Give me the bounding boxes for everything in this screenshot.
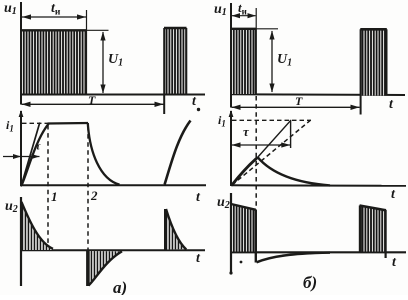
label tи — [51, 1, 61, 18]
svg-text:t: t — [391, 187, 396, 202]
label t (middle-right axis) — [391, 187, 396, 202]
pulse 1 top edge — [21, 29, 87, 31]
pulse 2 right edge — [386, 29, 388, 95]
dimension arrow tau — [232, 142, 291, 147]
label 2 — [90, 188, 98, 203]
pulse 2 top edge — [360, 28, 387, 31]
arrowhead i1 axis — [229, 110, 234, 117]
block 1 hatched — [232, 205, 256, 252]
arrowhead i1 axis — [19, 110, 24, 117]
label t (bottom-left axis) — [196, 251, 201, 266]
speck dot — [240, 261, 243, 264]
label u1 — [4, 1, 17, 17]
axis u1 (left, vertical) — [20, 2, 22, 105]
dimension arrow tи — [232, 13, 257, 18]
block 1 top edge (drooping) — [231, 204, 256, 210]
label b) — [303, 273, 317, 292]
speck — [197, 108, 200, 111]
svg-text:τ: τ — [36, 141, 42, 153]
extension line above pulse1 right edge — [255, 8, 257, 29]
label t (bottom-right axis) — [392, 255, 397, 270]
svg-text:u2: u2 — [217, 195, 230, 211]
tick at tau point — [290, 120, 292, 148]
axis u2 (vertical, extends below baseline) — [230, 193, 232, 272]
axis i1 (vertical) — [20, 111, 22, 186]
spike 1 rising edge — [20, 202, 22, 251]
label U1 — [277, 52, 292, 69]
spike 1 hatched area — [22, 202, 53, 250]
dashed vertical at pulse end x=256 — [255, 96, 257, 208]
svg-text:U1: U1 — [277, 52, 292, 69]
axis u2 (vertical, extends below baseline) — [20, 197, 22, 286]
pulse 1 hatched — [232, 29, 256, 94]
block 2 hatched — [361, 206, 386, 252]
current flat top — [48, 122, 89, 125]
label U1 — [108, 52, 123, 69]
axis u1 (vertical) — [230, 3, 232, 108]
pulse 1 hatched (t=0..tи) — [22, 31, 86, 94]
svg-text:а): а) — [113, 278, 127, 295]
pulse 2 right edge — [185, 28, 187, 94]
svg-text:T: T — [88, 93, 96, 107]
label t (top-left axis) — [192, 94, 197, 109]
pulse 1 right edge — [85, 30, 87, 94]
spike 2 falling edge — [86, 251, 90, 287]
block 2 top edge — [360, 206, 387, 211]
label i1 — [6, 118, 14, 134]
block 2 right edge (small tail below baseline) — [385, 210, 387, 258]
svg-text:t: t — [392, 255, 397, 270]
dashed asymptote level — [22, 122, 48, 124]
label T — [295, 94, 303, 108]
axis t (bottom-right baseline) — [231, 251, 406, 253]
block 2 left edge — [359, 206, 362, 253]
label tau — [243, 124, 250, 139]
pulse 1 top edge — [231, 28, 257, 30]
axis i1 (vertical) — [230, 111, 232, 186]
pulse 2 left edge (extends below axis) — [360, 29, 362, 114]
spike 3 decay curve — [166, 209, 186, 250]
thin line from peak to asymptote — [258, 120, 291, 157]
undershoot recovery curve — [257, 253, 331, 263]
svg-text:2: 2 — [90, 188, 98, 203]
current rise (sawtooth front) — [232, 157, 258, 185]
label a) — [113, 278, 127, 297]
label u2 — [217, 195, 230, 211]
tangent line at origin — [21, 123, 40, 187]
label t (top-right axis) — [389, 97, 394, 112]
axis t (top-right baseline) — [230, 93, 405, 96]
block 1 right edge (drops below baseline) — [255, 210, 257, 263]
svg-text:tи: tи — [238, 0, 247, 17]
axis t (middle-left baseline) — [21, 184, 206, 186]
svg-text:u2: u2 — [5, 199, 18, 215]
current rise curve (next period) — [165, 121, 191, 185]
label tи — [238, 0, 247, 17]
label u2 — [5, 199, 18, 215]
extension line right of pulse top for U1 — [257, 28, 279, 30]
current decay curve — [88, 123, 120, 185]
pulse 2 left edge (extends below axis to T arrow) — [163, 28, 165, 114]
dashed asymptote level — [232, 119, 311, 121]
pulse 1 right edge — [255, 29, 257, 95]
label u1 — [214, 2, 227, 18]
label tau — [36, 141, 42, 153]
svg-text:tи: tи — [51, 1, 61, 18]
svg-text:i1: i1 — [6, 118, 14, 134]
label t (middle-left axis) — [196, 190, 201, 205]
svg-text:t: t — [196, 190, 201, 205]
svg-text:б): б) — [303, 273, 317, 292]
dashed tangent from origin — [232, 119, 312, 185]
spike 1 decay curve — [22, 202, 54, 249]
pulse 2 hatched — [165, 28, 187, 94]
svg-text:τ: τ — [243, 124, 250, 139]
dimension arrow tи — [22, 14, 86, 19]
label i1 — [218, 113, 226, 129]
svg-text:1: 1 — [51, 189, 58, 204]
dashed line 2 (end of pulse) — [87, 126, 89, 285]
tau dimension arrows — [3, 154, 40, 159]
label 1 — [51, 189, 58, 204]
spike 2 recovery curve — [89, 251, 123, 285]
label T — [88, 93, 96, 107]
spike 3 rising edge — [164, 209, 167, 250]
dimension arrow U1 (vertical) — [100, 32, 105, 94]
pulse 2 hatched — [362, 30, 386, 96]
spike 3 hatched area — [167, 210, 187, 250]
svg-text:t: t — [389, 97, 394, 112]
svg-text:u1: u1 — [4, 1, 17, 17]
svg-text:T: T — [295, 94, 303, 108]
current decay — [258, 157, 330, 185]
axis t (top-left baseline) — [20, 94, 205, 96]
spike 2 hatched area (negative) — [89, 251, 121, 285]
dimension arrow T — [232, 105, 360, 110]
pulse 2 top edge — [164, 27, 187, 29]
axis t (middle-right baseline) — [231, 184, 406, 187]
dimension arrow U1 — [269, 31, 274, 93]
current rise curve — [22, 124, 49, 186]
dimension arrow T (period) — [22, 102, 164, 107]
svg-text:u1: u1 — [214, 2, 227, 18]
svg-text:i1: i1 — [218, 113, 226, 129]
axis t (bottom-left baseline) — [21, 249, 205, 251]
dashed line 1 (end of rise) — [47, 125, 49, 245]
svg-text:U1: U1 — [108, 52, 123, 69]
svg-text:t: t — [192, 94, 197, 109]
extension line above pulse1 right edge — [86, 10, 88, 30]
extension line right of pulse1 top for U1 — [87, 29, 109, 31]
svg-text:t: t — [196, 251, 201, 266]
